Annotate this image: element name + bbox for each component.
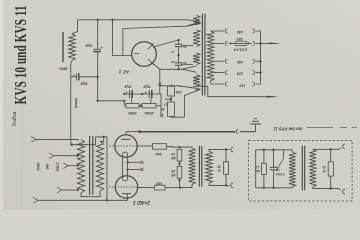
node K11 r top bbox=[263, 149, 265, 151]
T1 tap socket arc 3 bbox=[253, 71, 255, 75]
node anode rail bbox=[138, 130, 141, 133]
T2 winding right bbox=[97, 141, 104, 191]
capacitor C6 25uF bbox=[149, 90, 152, 98]
resistor R3 20ohm bbox=[165, 86, 175, 102]
tube AZ1 bbox=[132, 42, 157, 67]
wire choke to T2 bbox=[71, 77, 72, 145]
wire T3 prim top bbox=[180, 146, 193, 149]
node rail left bbox=[123, 93, 125, 95]
capacitor C3 10nF bbox=[175, 40, 183, 63]
terminal spk bottom C bbox=[231, 183, 233, 188]
transformer T4 core bbox=[302, 146, 304, 191]
capacitor C4 10nF bbox=[175, 63, 183, 69]
wire V1 grid bbox=[137, 145, 153, 147]
wire 25uF rail bbox=[124, 93, 160, 95]
wire K11 prim bottom bbox=[291, 187, 293, 188]
label C3 10 bbox=[183, 45, 187, 49]
T1 tap 240 bbox=[211, 30, 225, 32]
wire selector bus bbox=[256, 31, 261, 84]
label 40mA bbox=[74, 97, 78, 109]
node K11 r bottom bbox=[263, 187, 265, 189]
node rail-AZ1feed bbox=[111, 19, 113, 21]
label C2 16uF bbox=[79, 82, 88, 86]
wire T3 sec top bbox=[209, 149, 230, 151]
transformer T1 core bbox=[202, 14, 205, 96]
wire to R1 bbox=[124, 105, 126, 107]
terminal in3 bbox=[63, 163, 79, 168]
label 280ohm bbox=[36, 161, 40, 171]
label R2 250 bbox=[144, 111, 154, 115]
terminal x4 bbox=[140, 168, 143, 171]
T1 tap socket arc 0 bbox=[253, 29, 255, 33]
T1 tap plug arc 1 bbox=[225, 41, 227, 45]
tube V2 AD1 bbox=[109, 176, 138, 198]
wire K11 left bbox=[255, 150, 257, 188]
T1 tap 125 bbox=[214, 72, 224, 74]
wire mains lead top bbox=[256, 43, 282, 45]
wire heater pair mid bbox=[179, 66, 197, 72]
wire R2 end bbox=[156, 94, 161, 114]
transformer T3 core bbox=[199, 146, 201, 187]
label C7 bbox=[275, 173, 285, 177]
wire bus tap 125 bbox=[256, 72, 261, 74]
terminal in5 bbox=[33, 198, 127, 203]
resistor R11 15ohm bbox=[328, 149, 333, 188]
wire R1-R2 bbox=[139, 105, 142, 107]
T1 tap socket arc 1 bbox=[253, 41, 255, 45]
wire C3 to T1 winding B bbox=[182, 45, 194, 47]
label nur bei KVS 11 bbox=[273, 126, 357, 131]
node div bottom bbox=[178, 179, 180, 181]
wire thick rail bbox=[140, 131, 236, 133]
wire K11 bottom rail bbox=[256, 187, 292, 189]
label C3 nF bbox=[171, 50, 175, 54]
capacitor C2 16uF bbox=[71, 73, 98, 80]
node C3-C4 mid bbox=[177, 54, 179, 56]
label R11 15ohm bbox=[322, 165, 326, 173]
T1 tap plug arc 3 bbox=[225, 71, 227, 75]
ground symbol bbox=[250, 119, 261, 124]
node C1-C2 bbox=[97, 76, 99, 78]
T1 winding C bbox=[193, 53, 200, 65]
wire T4 sec bottom bbox=[313, 187, 339, 189]
wire T2 sec bottom bbox=[81, 191, 100, 197]
T1 tap socket arc 4 bbox=[253, 82, 255, 86]
node C3 top bbox=[177, 39, 179, 41]
wire earth riser bbox=[255, 124, 257, 132]
wire heater riser bbox=[171, 115, 184, 118]
node spk top bbox=[225, 148, 227, 150]
T1 tap 220 bbox=[214, 42, 224, 44]
terminal in2 bbox=[49, 153, 79, 158]
label C6 plus bbox=[144, 90, 147, 95]
label C5 plus bbox=[125, 90, 128, 95]
label C5 25uF bbox=[123, 85, 133, 89]
wire C6 stub bbox=[150, 98, 152, 103]
terminal spk top C bbox=[231, 147, 233, 152]
label 150 bbox=[236, 60, 243, 64]
T1 winding A bbox=[193, 15, 200, 24]
resistor R7 15k bbox=[177, 149, 182, 161]
resistor R5 1k bbox=[153, 144, 167, 150]
wire R6 out bbox=[165, 187, 180, 189]
node T2 feed bbox=[71, 144, 73, 146]
wire C5 stub bbox=[131, 98, 133, 103]
label C6 25uF bbox=[142, 85, 152, 89]
node A top bbox=[170, 85, 172, 87]
label C4 nF bbox=[171, 60, 175, 64]
choke core line bbox=[62, 32, 64, 62]
resistor R2 250 bbox=[142, 103, 156, 108]
wire C4 to T1 winding C bbox=[182, 63, 194, 65]
node spk bottom bbox=[225, 184, 227, 186]
capacitor C1 16uF bbox=[93, 20, 101, 101]
node K11 c bottom bbox=[272, 187, 274, 189]
label 6kohm bbox=[45, 164, 49, 170]
T2 winding left bbox=[78, 140, 85, 193]
label R7 15k bbox=[171, 152, 176, 160]
node K11 spk bottom bbox=[330, 187, 332, 189]
wire K11 top rail bbox=[256, 149, 284, 151]
T1 tap 110 bbox=[211, 81, 225, 84]
terminal K11 bottom C bbox=[339, 189, 345, 194]
wire heater D line1 bbox=[179, 86, 201, 90]
wire filament legs bbox=[123, 157, 128, 176]
node R6 out bbox=[179, 186, 181, 188]
wire AZ1 to C4 bbox=[152, 63, 179, 70]
wire V2 grid bbox=[138, 187, 155, 189]
terminal x2 bbox=[160, 114, 163, 117]
wire T4 sec top bbox=[313, 148, 339, 150]
T3 secondary bbox=[206, 151, 213, 183]
connector arc pair bbox=[236, 130, 255, 134]
wire K11 prim top bbox=[284, 150, 293, 152]
terminal in1 bbox=[31, 137, 78, 142]
terminal in4 bbox=[57, 187, 79, 192]
resistor R8 15k bbox=[177, 166, 182, 178]
label 24kohm bbox=[56, 162, 60, 172]
wire K11 arrow bbox=[277, 150, 284, 171]
wire T3 sec bottom bbox=[209, 183, 230, 185]
label fuse rating bbox=[233, 47, 247, 51]
capacitor C5 25uF bbox=[130, 90, 133, 98]
label R5 1k bbox=[155, 152, 162, 156]
tube V1 AD1 bbox=[109, 135, 137, 157]
label R4 30 bbox=[161, 107, 165, 111]
label C4 10 bbox=[183, 61, 187, 65]
node R1-R2 bbox=[139, 105, 141, 107]
node lower feed bbox=[97, 100, 126, 102]
label R8 15k bbox=[171, 169, 176, 177]
node rail-C1 bbox=[97, 19, 99, 21]
label 220 bbox=[236, 37, 244, 41]
wire AZ1 to C3 bbox=[153, 40, 179, 47]
wire div bottom bbox=[179, 178, 181, 187]
label 2xAD1 bbox=[133, 199, 151, 205]
label R10 bbox=[255, 165, 260, 173]
label 380ohm bbox=[59, 67, 68, 71]
T3 primary bbox=[189, 148, 196, 185]
label C2 plus bbox=[72, 73, 75, 78]
resistor R10 1.5k bbox=[261, 150, 266, 188]
wire AZ1 anode feed bbox=[113, 20, 133, 56]
label R6 1k bbox=[155, 182, 162, 186]
terminal x3 bbox=[140, 161, 143, 164]
wire V1 anode up bbox=[126, 132, 140, 135]
wire T1 bottom to mains bbox=[193, 86, 279, 97]
wire bus tap 150 bbox=[256, 60, 261, 62]
label 110 bbox=[239, 83, 246, 87]
node K11 c top bbox=[272, 149, 274, 151]
T1 primary bbox=[207, 31, 214, 81]
label 125 bbox=[236, 72, 243, 76]
fuse 0,3/1,4A bbox=[228, 41, 251, 45]
transformer T2 core bbox=[90, 136, 93, 195]
capacitor C7 bbox=[270, 150, 277, 188]
node K11 spk top bbox=[330, 148, 332, 150]
wire div mid bbox=[179, 161, 181, 166]
T1 tap plug arc 0 bbox=[225, 29, 227, 33]
fuse arrowheads bbox=[230, 42, 250, 44]
T1 tap plug arc 2 bbox=[225, 59, 227, 63]
wire heater D line2 bbox=[184, 89, 200, 117]
label 240 bbox=[236, 30, 244, 34]
wire lower feed bbox=[98, 101, 125, 106]
T1 winding D bbox=[193, 75, 200, 87]
caption Saba bbox=[11, 111, 18, 126]
resistor R6 1k bbox=[155, 185, 166, 190]
T1 winding B bbox=[193, 30, 200, 47]
label C1 16uF bbox=[84, 44, 93, 48]
wire AZ1 top stub bbox=[122, 29, 124, 56]
resistor R9 15ohm bbox=[223, 149, 228, 185]
wire T2 sec top bbox=[72, 136, 108, 202]
label C1 plus bbox=[100, 46, 103, 51]
dashed box nur bei KVS 11 bbox=[249, 140, 353, 201]
node bus 150 bbox=[259, 60, 261, 62]
choke Dr 380ohm bbox=[69, 20, 78, 77]
wire x-to-A rail bbox=[160, 85, 181, 87]
label R1 2500 bbox=[127, 111, 137, 115]
T1 tap plug arc 4 bbox=[225, 82, 227, 86]
resistor R4 30 bbox=[168, 102, 175, 116]
wire R5 out bbox=[167, 145, 180, 148]
T1 tap socket arc 2 bbox=[253, 59, 255, 63]
terminal x1 bbox=[158, 83, 161, 86]
wire filament tap1 bbox=[126, 161, 140, 163]
terminal K11 top C bbox=[339, 144, 345, 149]
wire AZ1 heater pair bbox=[123, 20, 200, 29]
T4 primary bbox=[289, 152, 296, 187]
T1 tap 150 bbox=[214, 60, 224, 62]
label R3 20ohm bbox=[175, 90, 183, 94]
T4 secondary bbox=[310, 149, 317, 187]
node div mid bbox=[178, 162, 180, 164]
caption KVS 10 und KVS 11 bbox=[11, 6, 30, 105]
node C4 bottom bbox=[177, 68, 179, 70]
wire V2 anode down bbox=[126, 194, 128, 200]
resistor R1 2500 bbox=[126, 103, 139, 108]
node div top bbox=[178, 146, 180, 148]
node bus 220 bbox=[259, 42, 261, 44]
wire filament tap2 bbox=[126, 168, 140, 170]
node bus 125 bbox=[259, 71, 261, 73]
wire rail up x bbox=[159, 69, 161, 94]
label R9 15ohm bbox=[217, 165, 221, 173]
label U bbox=[164, 103, 167, 107]
label AZ1 bbox=[118, 69, 130, 75]
node rail mid bbox=[141, 93, 143, 95]
wire T3 prim bottom bbox=[180, 185, 192, 188]
wire B+ top rail bbox=[78, 19, 189, 21]
